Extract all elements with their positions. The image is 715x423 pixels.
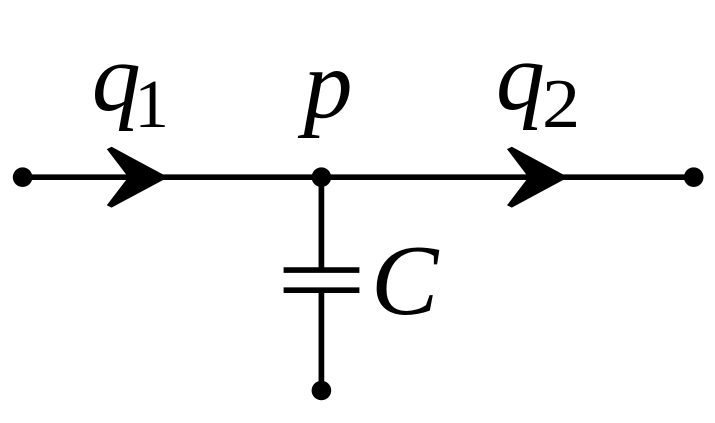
terminal node left xyxy=(13,167,33,187)
label q2 xyxy=(496,28,545,126)
label C xyxy=(371,230,438,331)
terminal node right xyxy=(684,167,704,187)
label p xyxy=(304,36,353,134)
label q1 xyxy=(92,29,141,127)
wire from capacitor down to bottom terminal xyxy=(319,291,325,391)
node p junction dot xyxy=(312,167,332,187)
terminal node bottom xyxy=(312,381,332,401)
wire main horizontal left-to-right xyxy=(23,174,694,180)
arrow for current q2 xyxy=(507,147,568,208)
arrow for current q1 xyxy=(107,147,168,208)
capacitor C plates xyxy=(284,270,360,290)
wire from node p down to capacitor xyxy=(319,177,325,268)
